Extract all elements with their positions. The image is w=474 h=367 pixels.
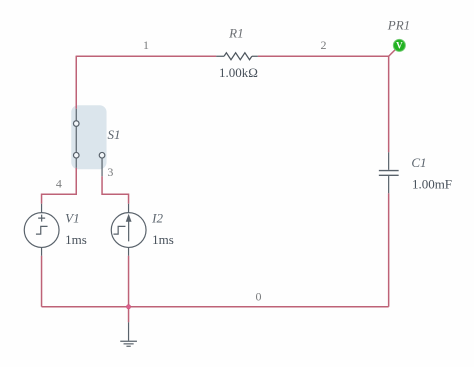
wire: bottom rail (node 0) xyxy=(42,306,389,308)
svg-text:3: 3 xyxy=(107,165,113,179)
wire: right vertical top (node 2 to C1) xyxy=(388,56,390,153)
value I2 1ms xyxy=(152,232,174,247)
current source I2 xyxy=(111,204,146,256)
svg-text:I2: I2 xyxy=(151,210,163,225)
value C1 1.00mF xyxy=(412,176,452,191)
svg-text:1.00mF: 1.00mF xyxy=(412,176,452,191)
svg-text:1ms: 1ms xyxy=(65,232,87,247)
label V1 xyxy=(65,210,79,225)
label I2 xyxy=(151,210,163,225)
wire: top right segment (node 2) xyxy=(258,55,389,57)
probe PR1 xyxy=(389,39,406,56)
wire: switch pin4 down-left to V1 xyxy=(42,168,77,204)
label S1 xyxy=(108,127,121,142)
switch S1 highlight box xyxy=(71,105,106,169)
ground xyxy=(120,322,137,346)
node 2 xyxy=(320,38,326,52)
wire: right vertical bottom (C1 to node 0) xyxy=(388,193,390,307)
svg-text:PR1: PR1 xyxy=(387,17,410,32)
svg-text:1ms: 1ms xyxy=(152,232,174,247)
node 3 xyxy=(107,165,113,179)
voltage source V1 xyxy=(24,204,59,256)
label PR1 xyxy=(387,17,410,32)
wire: top left segment (node 1) xyxy=(76,55,216,57)
svg-text:V1: V1 xyxy=(65,210,79,225)
svg-text:S1: S1 xyxy=(108,127,121,142)
wire: switch pin3 down-right to I2 xyxy=(102,176,129,204)
svg-text:1: 1 xyxy=(143,38,149,52)
svg-text:1.00kΩ: 1.00kΩ xyxy=(219,65,258,80)
svg-text:R1: R1 xyxy=(228,26,243,41)
switch S1 xyxy=(73,109,104,177)
wire: I2 bottom to junction xyxy=(128,256,130,307)
svg-text:V: V xyxy=(396,41,403,51)
wire: ground stub xyxy=(128,307,130,323)
wire: V1 bottom to bottom rail xyxy=(41,256,43,307)
resistor R1 xyxy=(216,53,258,60)
svg-text:4: 4 xyxy=(56,177,62,191)
junction node 0 xyxy=(126,305,130,309)
value V1 1ms xyxy=(65,232,87,247)
node 0 xyxy=(255,289,261,303)
wire: left vertical into switch xyxy=(75,56,77,109)
label C1 xyxy=(411,155,426,170)
svg-text:C1: C1 xyxy=(411,155,426,170)
node 4 xyxy=(56,177,62,191)
value 1.00kOhm xyxy=(219,65,258,80)
node 1 xyxy=(143,38,149,52)
svg-text:0: 0 xyxy=(255,289,261,303)
capacitor C1 xyxy=(379,152,399,193)
label R1 xyxy=(228,26,243,41)
svg-text:2: 2 xyxy=(320,38,326,52)
